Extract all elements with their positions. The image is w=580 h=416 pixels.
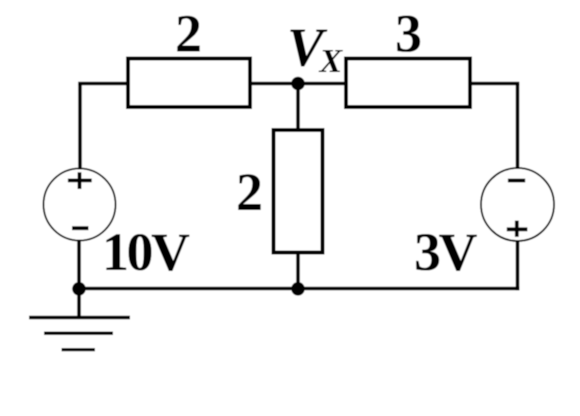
- resistor R3 value 2 (middle vertical box): [274, 130, 323, 253]
- wire right vertical top: [516, 84, 520, 170]
- wire bottom horizontal: [79, 287, 519, 291]
- svg-text:10V: 10V: [102, 222, 190, 282]
- V2 plus sign: [507, 221, 528, 237]
- node Vx junction dot: [291, 77, 305, 91]
- wire top-left horizontal: [78, 82, 128, 86]
- resistor R1 value 2 (top-left box): [128, 59, 250, 108]
- wire node Vx to R3: [296, 84, 300, 131]
- voltage source V2 circle (3V): [481, 168, 554, 241]
- svg-text:2: 2: [236, 162, 263, 222]
- V2 minus sign: [508, 179, 525, 183]
- wire V2 bottom vertical: [516, 241, 520, 291]
- wire V1 bottom to ground node: [77, 240, 81, 289]
- V1 plus sign: [68, 172, 92, 189]
- wire ground node to ground symbol: [77, 289, 81, 318]
- svg-text:2: 2: [175, 4, 202, 64]
- resistor R2 value 3 (top-right box): [346, 59, 470, 108]
- wire R1 to node Vx: [250, 82, 346, 86]
- ground symbol: [29, 318, 130, 350]
- bottom middle junction dot: [291, 282, 305, 296]
- V1 minus sign: [72, 226, 89, 230]
- wire left vertical: [78, 84, 82, 170]
- wire R2 to right corner: [470, 82, 519, 86]
- voltage source V1 circle (10V): [44, 169, 116, 241]
- svg-text:3V: 3V: [414, 222, 478, 282]
- wire R3 to bottom node: [296, 253, 300, 289]
- ground node junction dot: [72, 282, 86, 296]
- svg-text:3: 3: [395, 4, 422, 64]
